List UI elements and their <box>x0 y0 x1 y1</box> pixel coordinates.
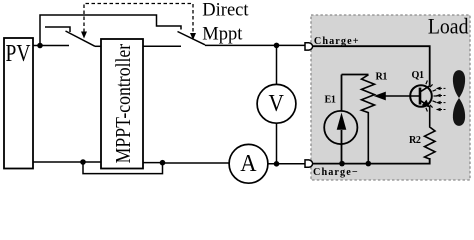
svg-text:R1: R1 <box>376 72 388 83</box>
svg-text:Charge+: Charge+ <box>314 36 360 47</box>
svg-text:A: A <box>240 150 256 177</box>
svg-text:MPPT-controller: MPPT-controller <box>113 43 136 163</box>
svg-text:E1: E1 <box>325 95 336 106</box>
svg-text:PV: PV <box>6 39 31 67</box>
svg-text:Charge−: Charge− <box>313 167 359 178</box>
svg-text:V: V <box>269 89 285 116</box>
svg-text:Q1: Q1 <box>412 70 424 81</box>
svg-text:Direct: Direct <box>202 1 249 21</box>
svg-text:R2: R2 <box>409 135 421 146</box>
svg-text:Mppt: Mppt <box>202 25 243 45</box>
svg-text:Load: Load <box>428 13 469 38</box>
